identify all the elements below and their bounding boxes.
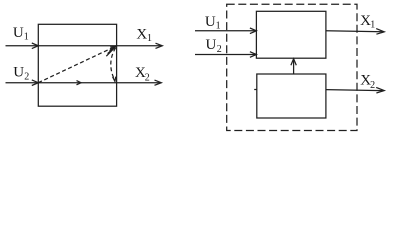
svg-text:2: 2 — [370, 80, 375, 91]
wire U1 input (right diagram) — [195, 30, 256, 32]
svg-text:X: X — [136, 27, 147, 43]
arrowhead X2 output right — [376, 87, 384, 93]
label X1 (left diagram) — [136, 27, 152, 44]
svg-text:U: U — [13, 64, 24, 80]
label X2 (right diagram) — [360, 73, 375, 91]
feedback wire from lower block to object — [293, 59, 295, 74]
label U1 (right diagram) — [205, 14, 221, 31]
arrowhead X2 output — [155, 80, 162, 85]
arrowhead of curve at X2 line — [113, 77, 116, 82]
arrowhead of diagonal at X1 node — [110, 46, 117, 51]
arrowhead mid-wire inside box — [77, 81, 82, 85]
block: left coupled-object box — [38, 24, 116, 106]
svg-text:1: 1 — [147, 33, 152, 44]
dashed coupling curve X1 to X2 — [111, 48, 116, 80]
arrowhead U1 into top block — [250, 28, 257, 34]
arrowhead U2 into box — [32, 80, 39, 86]
dashed system boundary (right diagram) — [227, 4, 357, 130]
label X1 (right diagram) — [360, 13, 375, 30]
wire U2 input (right diagram) — [195, 54, 256, 56]
wire U2-X2 (bottom horizontal line through box) — [6, 82, 161, 84]
wire U1-X1 (top horizontal line through box) — [6, 45, 162, 47]
svg-text:1: 1 — [216, 20, 221, 31]
arrowhead X1 output — [156, 43, 163, 48]
svg-text:U: U — [13, 25, 24, 41]
label X2 (left diagram) — [135, 65, 150, 84]
wire X1 output (right diagram) — [326, 31, 384, 32]
svg-text:2: 2 — [145, 73, 150, 84]
arrowhead U1 into box — [32, 43, 39, 49]
arrowhead feedback up — [291, 59, 296, 65]
dashed cross-coupling U2 to X1 (diagonal) — [38, 47, 114, 83]
block: object (top block, right diagram) — [256, 11, 326, 58]
block: lower block (right diagram) — [257, 74, 326, 118]
svg-text:2: 2 — [24, 71, 29, 82]
svg-text:U: U — [205, 14, 216, 30]
svg-text:U: U — [206, 37, 217, 53]
arrowhead X1 output right — [376, 29, 384, 35]
arrowhead U2 into top block — [250, 52, 257, 58]
label U2 (left diagram) — [13, 64, 29, 82]
label U1 (left diagram) — [13, 25, 29, 42]
tick node on lower block left edge — [254, 89, 257, 91]
svg-text:1: 1 — [370, 20, 375, 31]
svg-text:2: 2 — [217, 44, 222, 55]
wire X2 output (right diagram) — [326, 90, 384, 91]
label U2 (right diagram) — [206, 37, 222, 55]
svg-text:1: 1 — [24, 32, 29, 43]
